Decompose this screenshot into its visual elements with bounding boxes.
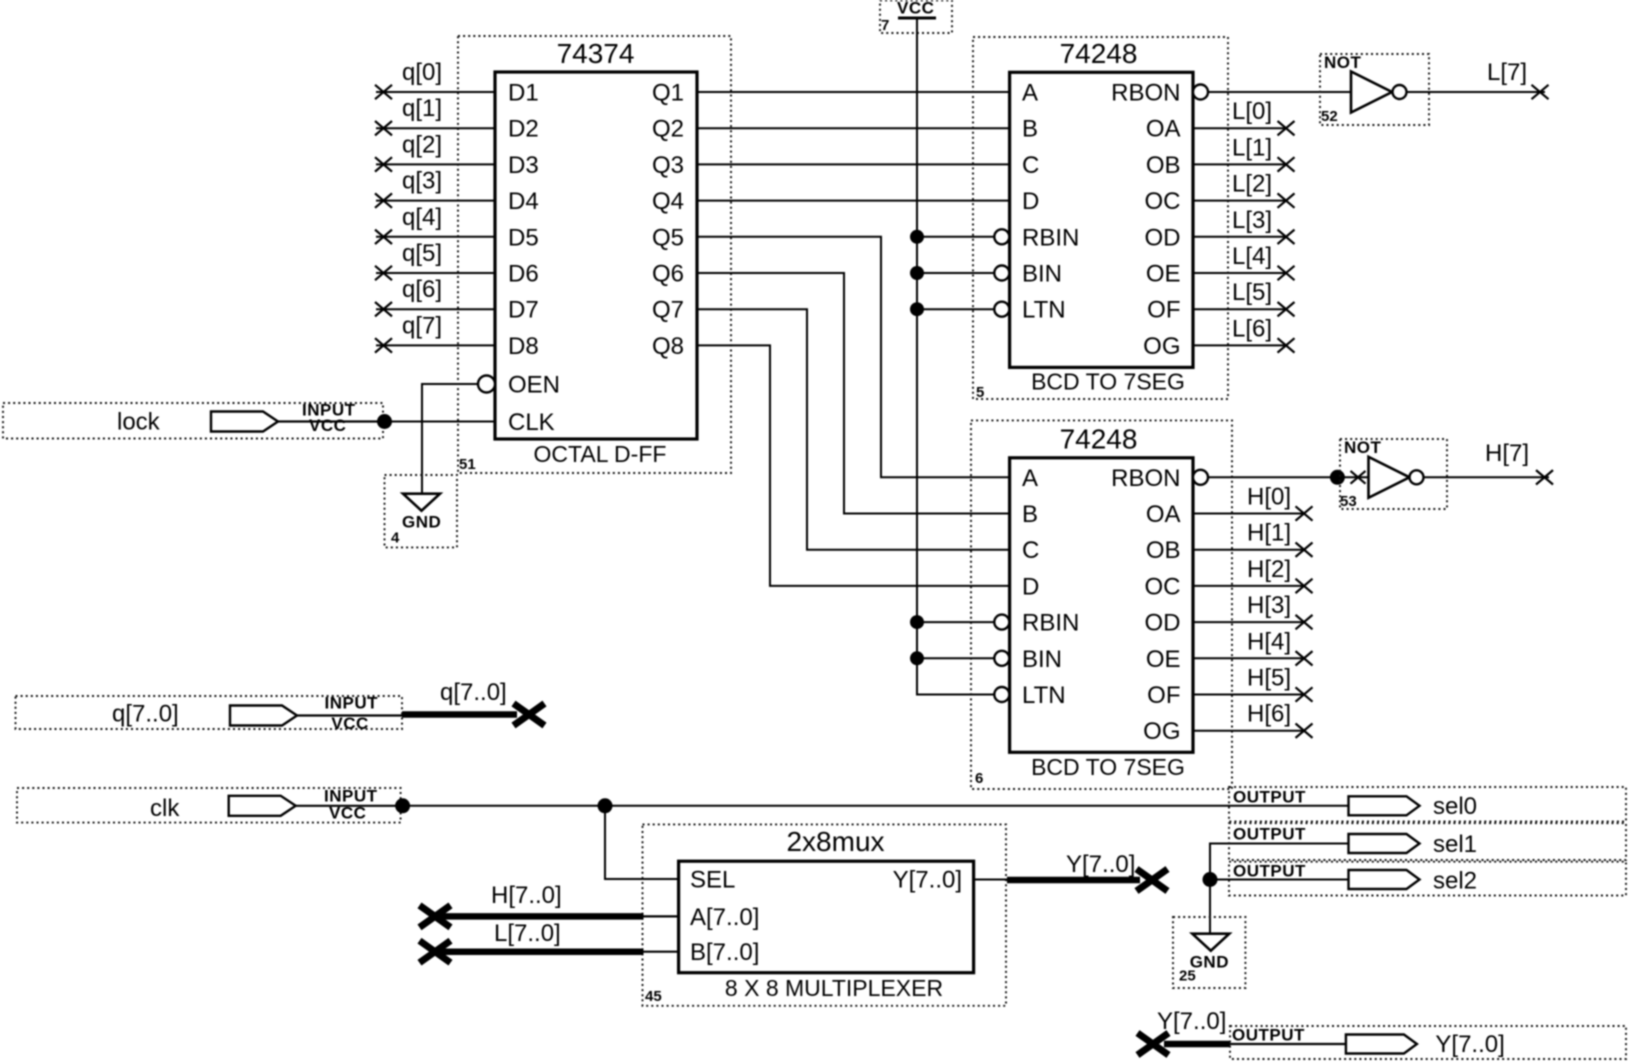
pin LTN bubble (994, 302, 1009, 317)
svg-text:L[5]: L[5] (1232, 279, 1272, 306)
open end x H[7] (1536, 470, 1553, 484)
svg-text:q[7..0]: q[7..0] (112, 701, 179, 728)
svg-text:Q3: Q3 (652, 152, 684, 179)
open bus end x q[7..0] (514, 704, 545, 726)
wire L[1] stub (1193, 163, 1286, 165)
svg-text:OC: OC (1145, 573, 1181, 600)
junction sel2/GND rail (1203, 872, 1218, 887)
svg-text:L[3]: L[3] (1232, 207, 1272, 234)
pin BIN bubble (994, 266, 1009, 281)
svg-text:H[2]: H[2] (1247, 556, 1291, 583)
wire Q1 to A-D pin 1 of 74248 #1 (697, 91, 1010, 93)
svg-text:H[4]: H[4] (1247, 628, 1291, 655)
svg-text:Y[7..0]: Y[7..0] (1066, 851, 1135, 878)
wire Q2 to A-D pin 2 of 74248 #1 (697, 127, 1010, 129)
wire H[3] stub (1193, 621, 1304, 623)
output connector sel2 (1349, 870, 1420, 889)
svg-text:OG: OG (1143, 333, 1180, 360)
svg-text:CLK: CLK (508, 409, 555, 436)
input connector lock (211, 412, 278, 432)
input port lock (3, 401, 383, 439)
wire Y pin lead (974, 879, 1007, 881)
svg-text:q[7]: q[7] (402, 312, 442, 339)
svg-text:INPUT: INPUT (325, 694, 379, 713)
svg-text:H[7..0]: H[7..0] (491, 882, 562, 909)
svg-text:D8: D8 (508, 333, 539, 360)
svg-text:OB: OB (1146, 152, 1181, 179)
wire L[5] stub (1193, 308, 1286, 310)
svg-text:VCC: VCC (331, 714, 368, 733)
svg-text:74248: 74248 (1060, 38, 1138, 69)
svg-text:q[5]: q[5] (402, 240, 442, 267)
svg-text:74374: 74374 (557, 38, 635, 69)
junction clk/SEL branch (598, 798, 613, 813)
svg-text:2x8mux: 2x8mux (786, 826, 884, 857)
svg-text:OG: OG (1143, 718, 1180, 745)
svg-text:OC: OC (1145, 188, 1181, 215)
svg-text:q[6]: q[6] (402, 276, 442, 303)
svg-text:8 X 8 MULTIPLEXER: 8 X 8 MULTIPLEXER (725, 975, 943, 1001)
svg-text:52: 52 (1321, 108, 1338, 125)
svg-text:q[4]: q[4] (402, 204, 442, 231)
wire q[7] stub to D8 (376, 344, 495, 346)
svg-text:C: C (1022, 152, 1039, 179)
svg-text:L[0]: L[0] (1232, 98, 1272, 125)
svg-text:H[7]: H[7] (1485, 440, 1529, 467)
wire VCC branch (917, 657, 994, 659)
svg-text:OD: OD (1145, 610, 1181, 637)
ground GND symbol, instance 4 (385, 475, 458, 547)
wire L[3] stub (1193, 236, 1286, 238)
ground GND symbol, instance 25 (1173, 917, 1245, 988)
svg-text:H[3]: H[3] (1247, 592, 1291, 619)
svg-text:Q4: Q4 (652, 188, 684, 215)
svg-text:Q7: Q7 (652, 297, 684, 324)
svg-text:RBON: RBON (1111, 80, 1180, 107)
svg-text:OF: OF (1147, 682, 1180, 709)
wire VCC branch (917, 621, 994, 623)
svg-text:Q5: Q5 (652, 224, 684, 251)
open end x L[0] (1278, 121, 1295, 135)
output connector sel0 (1349, 796, 1420, 815)
svg-text:A: A (1022, 465, 1038, 492)
junction VCC/LTN #1 (910, 302, 924, 316)
power VCC symbol, instance 7 (880, 0, 952, 34)
svg-text:LTN: LTN (1022, 297, 1066, 324)
svg-text:OUTPUT: OUTPUT (1232, 1026, 1305, 1045)
svg-text:D4: D4 (508, 188, 539, 215)
open end x L[1] (1278, 157, 1295, 171)
wire q[4] stub to D5 (376, 236, 495, 238)
wire H[0] stub (1193, 513, 1304, 515)
input connector q bus (230, 706, 297, 726)
svg-text:RBIN: RBIN (1022, 610, 1079, 637)
output connector Y[7..0] (1346, 1035, 1417, 1054)
wire NOT 53 output to H[7] (1424, 476, 1550, 478)
wire VCC branch (917, 272, 994, 274)
svg-text:H[1]: H[1] (1247, 520, 1291, 547)
svg-text:D1: D1 (508, 80, 539, 107)
svg-text:6: 6 (975, 770, 983, 787)
svg-text:LTN: LTN (1022, 682, 1066, 709)
74248 BCD to 7-seg, instance 5 (973, 37, 1228, 401)
wire q[0] stub to D1 (376, 91, 495, 93)
svg-text:L[6]: L[6] (1232, 315, 1272, 342)
svg-text:L[2]: L[2] (1232, 171, 1272, 198)
svg-text:q[3]: q[3] (402, 168, 442, 195)
svg-text:Q8: Q8 (652, 333, 684, 360)
junction VCC/RBIN #2 (910, 615, 924, 629)
open end x H[0] (1296, 506, 1313, 520)
svg-text:sel1: sel1 (1433, 831, 1477, 858)
junction clk pin (395, 798, 410, 813)
svg-text:GND: GND (402, 513, 441, 532)
open bus end x H[7..0] (420, 905, 451, 927)
2x8mux 8x8 multiplexer, instance 45 (643, 824, 1007, 1005)
svg-text:H[0]: H[0] (1247, 484, 1291, 511)
wire thin pin lead B (643, 951, 679, 953)
open end x q[1] (375, 121, 392, 135)
open end x q[6] (375, 302, 392, 316)
svg-text:q[1]: q[1] (402, 95, 442, 122)
svg-text:B: B (1022, 116, 1038, 143)
open end x H[2] (1296, 579, 1313, 593)
open bus end x Y[7..0] bottom (1138, 1033, 1169, 1055)
open end x q[4] (375, 230, 392, 244)
svg-text:OF: OF (1147, 297, 1180, 324)
NOT gate, instance 53 (1340, 438, 1447, 510)
svg-text:D: D (1022, 188, 1039, 215)
svg-text:D: D (1022, 573, 1039, 600)
wire NOT 52 output to L[7] (1407, 91, 1546, 93)
wire RBON #2 to NOT 53 (1208, 476, 1369, 478)
svg-text:NOT: NOT (1324, 53, 1362, 72)
wire VCC branch (917, 236, 994, 238)
svg-text:D5: D5 (508, 224, 539, 251)
input connector clk (229, 796, 296, 816)
NOT gate, instance 52 (1320, 53, 1429, 125)
junction on RBON #2 wire (1330, 470, 1345, 485)
wire Y[7..0] bus to output port (1164, 1041, 1230, 1048)
svg-text:SEL: SEL (690, 867, 735, 894)
wire L[0] stub (1193, 127, 1286, 129)
open end x q[5] (375, 266, 392, 280)
svg-text:q[0]: q[0] (402, 59, 442, 86)
svg-text:B: B (1022, 501, 1038, 528)
open end x q[0] (375, 85, 392, 99)
pin LTN bubble (6) (994, 687, 1009, 702)
open end x H[4] (1296, 651, 1313, 665)
svg-text:sel2: sel2 (1433, 868, 1477, 895)
wire clk branch to SEL (605, 806, 679, 879)
svg-text:OD: OD (1145, 224, 1181, 251)
svg-text:VCC: VCC (309, 416, 346, 435)
wire Q6 to pin 2 of 74248 #2 (697, 273, 1010, 514)
svg-text:Y[7..0]: Y[7..0] (1157, 1008, 1226, 1035)
wire VCC branch (917, 308, 994, 310)
svg-text:C: C (1022, 537, 1039, 564)
output port sel0 (1229, 787, 1626, 822)
svg-text:VCC: VCC (897, 0, 934, 18)
open end x H[3] (1296, 615, 1313, 629)
output port Y[7..0] (1230, 1026, 1626, 1060)
svg-text:Y[7..0]: Y[7..0] (893, 867, 962, 894)
svg-text:Y[7..0]: Y[7..0] (1435, 1031, 1504, 1058)
svg-text:D7: D7 (508, 297, 539, 324)
wire q[2] stub to D3 (376, 163, 495, 165)
wire H[5] stub (1193, 694, 1304, 696)
wire Q5 to pin 1 of 74248 #2 (697, 237, 1010, 477)
svg-text:5: 5 (976, 384, 984, 401)
open end x L[6] (1278, 338, 1295, 352)
wire q[3] stub to D4 (376, 200, 495, 202)
wire H[7..0] bus to A (438, 913, 644, 920)
wire lead to output symbol (1230, 1043, 1346, 1045)
svg-text:OUTPUT: OUTPUT (1233, 825, 1306, 844)
svg-text:D2: D2 (508, 116, 539, 143)
svg-text:OE: OE (1146, 261, 1181, 288)
svg-text:OB: OB (1146, 537, 1181, 564)
open end x H[1] (1296, 543, 1313, 557)
svg-text:L[1]: L[1] (1232, 134, 1272, 161)
output port sel1 (1229, 823, 1626, 860)
pin RBON bubble (1193, 85, 1208, 100)
wire L[2] stub (1193, 200, 1286, 202)
svg-text:D6: D6 (508, 261, 539, 288)
wire q[7..0] bus stub (402, 711, 517, 718)
wire H[6] stub (1193, 730, 1304, 732)
pin stub x at NOT 53 input (1351, 471, 1366, 484)
open bus end x Y[7..0] (1137, 869, 1168, 891)
svg-text:OE: OE (1146, 646, 1181, 673)
wire L[4] stub (1193, 272, 1286, 274)
open end x L[4] (1278, 266, 1295, 280)
open end x q[3] (375, 193, 392, 207)
wire Q8 to pin 4 of 74248 #2 (697, 345, 1010, 586)
input port clk (17, 787, 401, 823)
wire Q3 to A-D pin 3 of 74248 #1 (697, 163, 1010, 165)
svg-text:OUTPUT: OUTPUT (1233, 788, 1306, 807)
open bus end x L[7..0] (420, 941, 451, 963)
svg-text:74248: 74248 (1060, 424, 1138, 455)
74374 octal D-FF, instance 51 (458, 36, 731, 473)
open end x L[3] (1278, 230, 1295, 244)
wire H[1] stub (1193, 549, 1304, 551)
wire sel1 to GND rail (1210, 844, 1349, 934)
svg-text:OA: OA (1146, 501, 1181, 528)
junction VCC/BIN #1 (910, 266, 924, 280)
wire sel2 stub (1210, 879, 1349, 881)
output connector sel1 (1349, 834, 1420, 853)
svg-text:L[7..0]: L[7..0] (494, 920, 561, 947)
wire Q7 to pin 3 of 74248 #2 (697, 309, 1010, 550)
svg-text:BCD TO 7SEG: BCD TO 7SEG (1031, 754, 1185, 780)
svg-text:A[7..0]: A[7..0] (690, 904, 759, 931)
junction lock pin (377, 414, 392, 429)
svg-text:Q1: Q1 (652, 80, 684, 107)
svg-text:RBIN: RBIN (1022, 224, 1079, 251)
svg-text:lock: lock (117, 409, 161, 436)
open end x L[7] (1532, 85, 1549, 99)
svg-text:Q6: Q6 (652, 261, 684, 288)
wire L[6] stub (1193, 344, 1286, 346)
svg-text:RBON: RBON (1111, 465, 1180, 492)
GND 25 triangle (1192, 934, 1229, 951)
wire clk to sel0 output (403, 805, 1349, 807)
svg-text:53: 53 (1340, 493, 1357, 510)
wire RBON #1 to NOT 52 (1208, 91, 1351, 93)
wire Q4 to A-D pin 4 of 74248 #1 (697, 200, 1010, 202)
svg-text:L[4]: L[4] (1232, 243, 1272, 270)
input port q[7..0] (16, 694, 403, 734)
wire q[1] stub to D2 (376, 127, 495, 129)
open end x L[5] (1278, 302, 1295, 316)
svg-text:B[7..0]: B[7..0] (690, 939, 759, 966)
GND 4 triangle (403, 494, 440, 511)
svg-text:clk: clk (150, 795, 180, 822)
svg-text:51: 51 (459, 456, 476, 473)
wire Y[7..0] bus out (1007, 877, 1140, 884)
pin RBON bubble (6) (1193, 470, 1208, 485)
wire L[7..0] bus to B (438, 948, 644, 955)
svg-text:NOT: NOT (1344, 438, 1382, 457)
74248 BCD to 7-seg, instance 6 (971, 420, 1232, 789)
junction VCC/RBIN #1 (910, 230, 924, 244)
svg-text:q[2]: q[2] (402, 131, 442, 158)
svg-text:OUTPUT: OUTPUT (1233, 862, 1306, 881)
svg-text:BCD TO 7SEG: BCD TO 7SEG (1031, 369, 1185, 395)
open end x H[5] (1296, 687, 1313, 701)
svg-text:45: 45 (645, 988, 662, 1005)
wire VCC rail vertical (917, 18, 994, 695)
pin OEN bubble (478, 376, 495, 393)
svg-text:OEN: OEN (508, 372, 560, 399)
pin RBIN bubble (6) (994, 615, 1009, 630)
wire lock to CLK (385, 421, 496, 423)
open end x L[2] (1278, 193, 1295, 207)
pin RBIN bubble (994, 229, 1009, 244)
svg-text:D3: D3 (508, 152, 539, 179)
svg-text:q[7..0]: q[7..0] (440, 679, 507, 706)
svg-text:L[7]: L[7] (1487, 59, 1527, 86)
svg-text:4: 4 (391, 530, 400, 547)
junction VCC/BIN #2 (910, 651, 924, 665)
svg-text:7: 7 (881, 17, 889, 34)
svg-text:OA: OA (1146, 116, 1181, 143)
wire OEN to GND 4 (422, 384, 478, 494)
output port sel2 (1229, 862, 1626, 896)
wire H[2] stub (1193, 585, 1304, 587)
wire H[4] stub (1193, 657, 1304, 659)
svg-text:A: A (1022, 80, 1038, 107)
svg-text:BIN: BIN (1022, 646, 1062, 673)
svg-text:VCC: VCC (329, 804, 366, 823)
pin BIN bubble (6) (994, 651, 1009, 666)
svg-text:OCTAL D-FF: OCTAL D-FF (534, 441, 667, 467)
wire q[5] stub to D6 (376, 272, 495, 274)
open end x q[7] (375, 338, 392, 352)
wire q[6] stub to D7 (376, 308, 495, 310)
svg-text:sel0: sel0 (1433, 793, 1477, 820)
svg-text:H[6]: H[6] (1247, 701, 1291, 728)
thin pin lead A (643, 915, 679, 917)
svg-text:Q2: Q2 (652, 116, 684, 143)
svg-text:25: 25 (1179, 968, 1196, 985)
open end x q[2] (375, 157, 392, 171)
open end x H[6] (1296, 724, 1313, 738)
svg-text:BIN: BIN (1022, 261, 1062, 288)
svg-text:H[5]: H[5] (1247, 665, 1291, 692)
